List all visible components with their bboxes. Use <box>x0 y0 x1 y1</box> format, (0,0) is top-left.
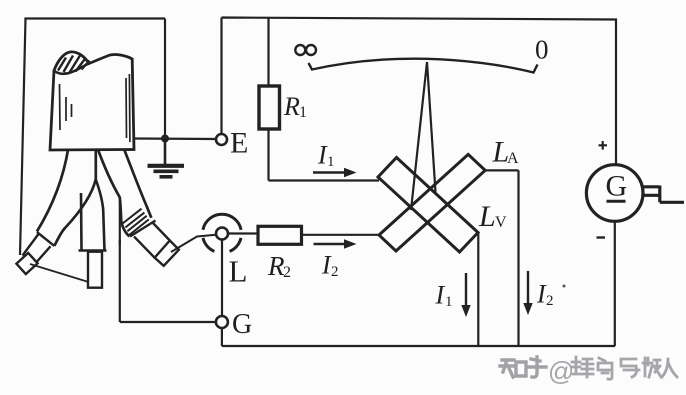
svg-text:1: 1 <box>327 154 335 170</box>
svg-text:R: R <box>283 92 300 121</box>
label I2 current arrow (horizontal) <box>314 239 357 280</box>
svg-text:2: 2 <box>331 264 339 280</box>
wire cable sheath to G (lower part) <box>120 240 216 322</box>
cable core right strand <box>97 148 178 266</box>
wire coil LA to right vertical <box>485 170 518 346</box>
svg-text:L: L <box>478 200 496 233</box>
terminal G <box>216 316 228 328</box>
svg-text:@: @ <box>548 356 574 386</box>
wire bottom bus <box>222 345 615 347</box>
label I1 current arrow (horizontal) <box>313 141 357 178</box>
svg-text:E: E <box>230 127 248 160</box>
label I2 down arrow <box>523 271 565 315</box>
label I1 down arrow <box>435 273 471 317</box>
terminal E <box>216 134 227 145</box>
svg-text:I: I <box>435 281 446 310</box>
generator crank handle <box>644 186 685 203</box>
watermark 知乎 @蜂鸟与旅人 <box>500 357 546 377</box>
ground <box>148 141 185 177</box>
svg-text:1: 1 <box>445 294 453 310</box>
svg-text:L: L <box>229 254 248 289</box>
wire cable sheath vertical <box>119 199 121 245</box>
wire coil LV down vertical <box>477 233 479 347</box>
svg-text:2: 2 <box>283 264 291 281</box>
coil LA (crossed coil, lower-left to upper-right) <box>379 154 485 251</box>
wire R2 to coil LA <box>302 234 380 236</box>
terminal L <box>216 228 228 240</box>
svg-text:1: 1 <box>299 104 307 121</box>
terminal L guard ring <box>203 214 241 251</box>
cable cut-end hatching <box>58 56 90 73</box>
label infinity <box>295 45 316 55</box>
wire E riser and top bus to generator <box>222 18 617 166</box>
svg-text:A: A <box>507 150 519 167</box>
wire cable to terminal E <box>134 137 216 140</box>
meter needle <box>411 62 436 210</box>
wire G terminal to bottom bus <box>221 328 223 346</box>
label + <box>599 141 608 150</box>
label minus <box>597 236 606 238</box>
svg-text:G: G <box>232 309 252 340</box>
meter scale arc <box>309 59 538 73</box>
cable specimen: body cylinder <box>50 52 134 150</box>
svg-text:V: V <box>495 214 507 231</box>
svg-text:G: G <box>606 170 628 203</box>
cable core middle strand <box>79 180 107 288</box>
node junction dot at cable/E/ground <box>161 135 169 143</box>
wire R1 to coil Lv <box>269 129 380 181</box>
wire right tip to terminal L <box>171 235 216 252</box>
wire generator to bottom bus <box>614 221 616 346</box>
resistor R2 <box>258 226 302 244</box>
wire top-left loop <box>20 19 165 256</box>
wire left loop right vertical <box>164 19 166 139</box>
resistor R1 <box>259 86 280 129</box>
wire R1 riser <box>267 18 269 87</box>
cable cut-end lens lower boundary <box>54 64 89 74</box>
wire jumper left tip to middle tip <box>30 264 89 282</box>
cable body shading lines <box>60 74 130 142</box>
cable core left strand <box>16 148 95 274</box>
svg-text:2: 2 <box>546 293 554 309</box>
svg-text:0: 0 <box>535 35 549 65</box>
generator G circle <box>586 165 643 222</box>
coil LV (crossed coil, upper-left to lower-right) <box>378 158 478 253</box>
wire L to R2 <box>228 232 258 234</box>
wire L terminal down to G terminal <box>221 240 223 317</box>
